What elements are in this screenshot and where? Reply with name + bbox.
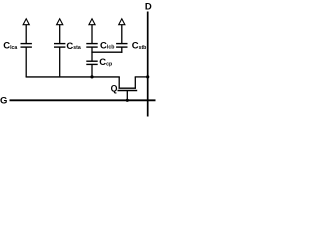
transistor Q gate bar (118, 90, 138, 92)
node Vcom arrow A4 (119, 19, 125, 25)
node junction dot source/D (146, 75, 149, 78)
node Vcom arrow A1 (23, 19, 29, 25)
node junction dot gate/G (126, 99, 129, 102)
svg-text:Q: Q (111, 84, 118, 94)
svg-text:Csta: Csta (66, 41, 80, 52)
svg-text:Clcb: Clcb (100, 40, 114, 51)
wire G line (10, 99, 156, 101)
svg-text:Ccp: Ccp (99, 57, 112, 68)
wire col1 down (25, 47, 27, 77)
transistor Q drain stub (118, 77, 120, 88)
wire arrow stem 4 (121, 25, 123, 44)
capacitor Clcb (86, 43, 97, 45)
wire col2 down (59, 47, 61, 76)
node Vcom arrow A2 (57, 19, 63, 25)
wire arrow stem 3 (91, 25, 93, 44)
wire arrow stem 2 (59, 25, 61, 44)
svg-text:Cstb: Cstb (132, 41, 147, 52)
wire source to D rail (135, 76, 149, 78)
node Vcom arrow A3 (89, 19, 95, 25)
wire col3 down to node B (91, 47, 93, 61)
wire gate lead (126, 91, 128, 101)
transistor Q source stub (134, 77, 136, 88)
wire node A bus (26, 76, 120, 78)
capacitor Ccp (86, 60, 97, 62)
wire arrow stem 1 (25, 25, 27, 44)
node junction dot A/Ccp (90, 75, 93, 78)
wire D rail (147, 12, 149, 117)
svg-text:G: G (0, 96, 7, 107)
wire Ccp to node A (91, 65, 93, 77)
transistor Q channel bar (119, 87, 137, 89)
svg-text:D: D (145, 1, 152, 12)
svg-text:Clca: Clca (3, 41, 17, 52)
wire col4 down to node B (121, 47, 123, 53)
capacitor Cstb (116, 43, 127, 45)
wire node B bus (91, 51, 122, 53)
capacitor Clca (21, 43, 32, 45)
capacitor Csta (54, 43, 65, 45)
